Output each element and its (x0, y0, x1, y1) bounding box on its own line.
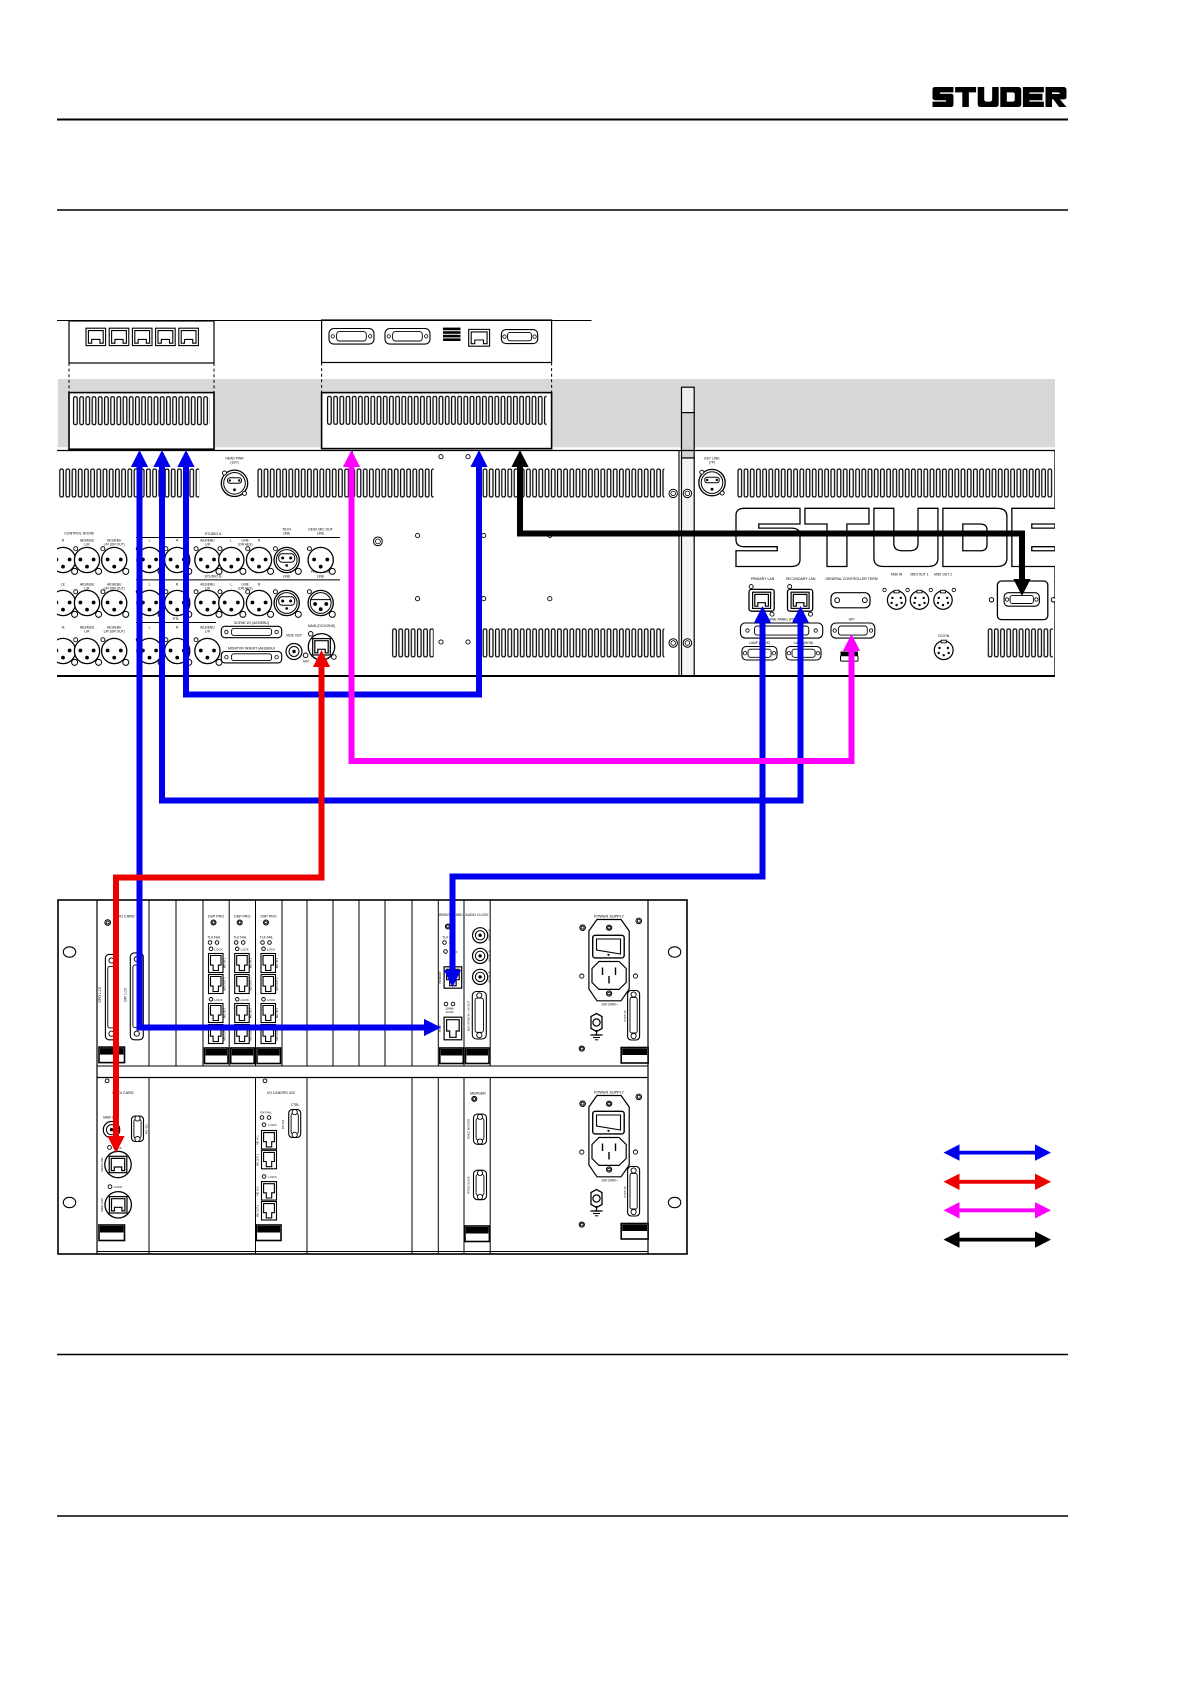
XLR connector (195, 638, 220, 663)
svg-text:GPO 1-15: GPO 1-15 (98, 987, 102, 1002)
svg-text:100-240V~: 100-240V~ (601, 1003, 618, 1007)
svg-text:MD OUT 1: MD OUT 1 (275, 977, 279, 991)
svg-text:I/O LINE/RS 422: I/O LINE/RS 422 (267, 1091, 295, 1095)
XLR connector (219, 547, 244, 572)
svg-text:PTL: PTL (173, 617, 180, 621)
XLR connector (74, 638, 99, 663)
svg-text:VIDEO IN: VIDEO IN (487, 929, 491, 941)
svg-text:LOCK: LOCK (267, 998, 275, 1002)
MADI BNC (103, 1122, 119, 1138)
MADI CARD (105, 1079, 109, 1083)
svg-text:MAIN (DO KONS): MAIN (DO KONS) (308, 624, 335, 628)
XLR connector (246, 547, 271, 572)
MD IN/OUT RJ45 jacks (235, 954, 250, 973)
svg-text:RS422 MASTER: RS422 MASTER (467, 1119, 471, 1139)
XLR connector (195, 547, 220, 572)
legend arrow blue (957, 1151, 1038, 1155)
svg-text:RS 422: RS 422 (281, 1119, 285, 1129)
svg-text:LE: LE (61, 583, 66, 587)
XLR TB IN line B (274, 590, 299, 615)
svg-text:MD IN 1: MD IN 1 (275, 957, 279, 968)
XLR connector (50, 547, 75, 572)
MD IN/OUT RJ45 jacks (261, 954, 276, 973)
svg-text:R: R (176, 583, 179, 587)
XLR connector (165, 590, 190, 615)
GENERAL CONTROLLER TERM DSUB (831, 593, 870, 608)
WCLK OUT BNC (473, 969, 488, 984)
svg-text:STUDIO B: STUDIO B (205, 575, 223, 579)
XLR PRCO TB IN (308, 590, 333, 615)
RJ45 jack (179, 328, 199, 345)
svg-text:L/R: L/R (84, 630, 90, 634)
legend arrow red (957, 1180, 1038, 1184)
footer rule 1 (57, 1354, 1068, 1356)
cable magenta M1: breakout B DB15 to GPI (352, 458, 852, 761)
svg-text:MD OUT 1: MD OUT 1 (256, 1153, 260, 1166)
svg-text:R: R (258, 583, 261, 587)
section header STUDIO A (136, 537, 340, 539)
breakout panel A (5x RJ45) (69, 321, 214, 363)
RJ45 jack (86, 328, 106, 345)
vent box B (322, 393, 552, 449)
svg-text:10 Mb: 10 Mb (446, 1010, 454, 1014)
IEC inlet (592, 962, 626, 990)
dashed drop lines panel A (68, 363, 70, 392)
svg-text:R: R (62, 539, 65, 543)
svg-text:RS422 SLAVE: RS422 SLAVE (467, 1176, 471, 1194)
rack frame (58, 900, 687, 1254)
svg-text:SCENE I/O (AES/EBU): SCENE I/O (AES/EBU) (234, 621, 269, 625)
legend arrow magenta (957, 1208, 1038, 1212)
svg-text:LOCK: LOCK (267, 947, 275, 951)
VIDEO IN BNC (473, 928, 488, 943)
header rule 1 (57, 119, 1068, 121)
RJ45 jack (469, 329, 490, 346)
dashed drop lines panel B (321, 363, 323, 393)
IEC inlet (592, 1138, 626, 1166)
svg-text:MIDI IN: MIDI IN (891, 572, 903, 576)
cable blue B1: breakout A port3 to bridge card SYNC (140, 458, 433, 1028)
svg-text:GENERAL CONTROLLER TERM: GENERAL CONTROLLER TERM (825, 577, 877, 581)
svg-text:MD IN 1: MD IN 1 (223, 957, 227, 968)
svg-text:L: L (149, 583, 151, 587)
console bottom vents (392, 628, 434, 657)
svg-text:(OR AES): (OR AES) (238, 543, 252, 547)
XLR connector (165, 547, 190, 572)
svg-text:GPI 1-15: GPI 1-15 (123, 988, 127, 1002)
svg-text:STATUS: STATUS (623, 1186, 627, 1197)
svg-text:CTRL: CTRL (291, 1103, 300, 1107)
svg-text:DSP PRO: DSP PRO (260, 915, 276, 919)
MD IN/OUT RJ45 jacks (209, 954, 224, 973)
svg-text:CONTROL ROOM: CONTROL ROOM (64, 532, 94, 536)
svg-text:MIDI OUT 2: MIDI OUT 2 (934, 572, 952, 576)
svg-text:LINE: LINE (317, 574, 325, 578)
svg-text:STUDIO A: STUDIO A (205, 532, 222, 536)
svg-text:MD IN 2: MD IN 2 (275, 1007, 279, 1018)
svg-text:RX FAIL: RX FAIL (260, 1111, 272, 1115)
STUDER embossed logo (console) (736, 508, 1145, 566)
cable black K1: breakout B DB9 to remote DB9 (520, 458, 1022, 588)
svg-text:(OR AES): (OR AES) (238, 587, 252, 591)
svg-text:PRIMARY LAN: PRIMARY LAN (751, 577, 775, 581)
I/O LINE/RS422 card (263, 1079, 267, 1083)
svg-text:MD IN 1: MD IN 1 (256, 1135, 260, 1145)
ground stud (591, 1190, 602, 1208)
XLR connector (50, 590, 75, 615)
svg-text:LOCK: LOCK (241, 998, 249, 1002)
svg-text:L/R (OR OUT): L/R (OR OUT) (104, 543, 125, 547)
MIDI OUT 1 DIN (910, 591, 928, 609)
rocker switch (593, 1111, 625, 1134)
PRIMARY RJ45 (bridge) (444, 967, 462, 988)
cable blue B3: breakout A port5 to breakout B RJ45 (186, 458, 479, 695)
STUDER logo (header) (933, 87, 1067, 107)
svg-text:LOCK: LOCK (241, 947, 249, 951)
XLR connector (50, 638, 75, 663)
DB15 connector (385, 329, 430, 345)
svg-text:LOCK: LOCK (268, 1175, 276, 1179)
svg-text:MD IN 2: MD IN 2 (249, 1007, 253, 1018)
cable red R1: console MAIN to MADI LINK (116, 658, 322, 1145)
svg-text:MD OUT 1: MD OUT 1 (223, 977, 227, 991)
svg-text:MD IN 2: MD IN 2 (256, 1186, 260, 1196)
svg-text:MD OUT 2: MD OUT 2 (256, 1204, 260, 1217)
line RJ45 jacks (262, 1131, 277, 1150)
XLR connector (246, 590, 271, 615)
XLR TB IN line (274, 547, 299, 572)
cable blue B4: PRIMARY LAN to bridge card PRIMARY (453, 613, 763, 979)
svg-text:MIDI OUT 1: MIDI OUT 1 (910, 572, 928, 576)
DB9 connector (501, 330, 537, 344)
svg-text:TLK FAIL: TLK FAIL (260, 936, 274, 940)
console top vents left (59, 469, 199, 498)
svg-text:WCLK IN: WCLK IN (487, 971, 491, 983)
rack slot dividers row 1 (148, 900, 150, 1066)
svg-text:SECONDARY LAN: SECONDARY LAN (786, 577, 816, 581)
XLR connector (74, 547, 99, 572)
svg-text:MADI LINK: MADI LINK (100, 1198, 104, 1212)
MIDI OUT 2 DIN (934, 591, 952, 609)
svg-text:MIX: MIX (303, 660, 310, 664)
console outline (57, 450, 1055, 452)
svg-text:AUDIO CLOCK: AUDIO CLOCK (465, 913, 489, 917)
svg-text:TLK FAIL: TLK FAIL (234, 936, 248, 940)
XLR connector (165, 638, 190, 663)
svg-text:MADI LINK: MADI LINK (100, 1157, 104, 1171)
svg-text:L/R: L/R (205, 630, 211, 634)
USB port stack (443, 328, 461, 331)
grey console profile band (58, 379, 1055, 447)
PRIMARY LAN RJ45 (749, 589, 774, 611)
svg-text:L/R: L/R (84, 543, 90, 547)
svg-text:LOCK: LOCK (268, 1123, 276, 1127)
svg-text:MERGER: MERGER (470, 1092, 486, 1096)
rocker switch (593, 935, 625, 958)
svg-text:VIDE OUT: VIDE OUT (286, 634, 302, 638)
cable blue B2: breakout A port4 to SECONDARY LAN (162, 458, 801, 801)
RJ45 jack (132, 328, 152, 345)
GPIO barcode label (99, 1047, 125, 1063)
svg-text:M: M (62, 626, 65, 630)
XLR connector (102, 590, 127, 615)
MIDI IN DIN (887, 591, 905, 609)
svg-text:WCLK IN: WCLK IN (487, 950, 491, 962)
RJ45 jack (109, 328, 129, 345)
MADI SYNC RJ45 (bridge) (444, 1017, 462, 1040)
svg-text:L/R: L/R (205, 543, 211, 547)
svg-text:R: R (258, 539, 261, 543)
svg-text:MONITOR INSERT (AES/EBU): MONITOR INSERT (AES/EBU) (228, 646, 275, 650)
hinge strip (682, 387, 695, 412)
XLR connector (219, 590, 244, 615)
footer rule 2 (57, 1515, 1068, 1517)
svg-text:L: L (149, 539, 151, 543)
XLR connector (102, 638, 127, 663)
svg-text:LINE: LINE (283, 532, 291, 536)
svg-text:R: R (176, 539, 179, 543)
svg-text:(7P): (7P) (709, 460, 715, 464)
svg-text:MD IN 2: MD IN 2 (223, 1007, 227, 1018)
vent box A (69, 393, 214, 450)
legend arrow black (957, 1238, 1038, 1242)
svg-text:TLK FAIL: TLK FAIL (207, 936, 221, 940)
breakout panel B (2x DB15, USB stack, RJ45, DB9) (322, 320, 552, 363)
svg-text:LINE: LINE (317, 532, 325, 536)
svg-text:LOCK: LOCK (214, 947, 222, 951)
svg-text:R: R (176, 626, 179, 630)
svg-text:DSP PRO: DSP PRO (208, 915, 224, 919)
XLR DESK MIC OUT (308, 547, 333, 572)
svg-text:DC/ON: DC/ON (938, 634, 949, 638)
svg-text:GPI: GPI (849, 617, 855, 621)
ground stud (591, 1014, 602, 1032)
svg-text:AES SYNC IN + 2x OUT: AES SYNC IN + 2x OUT (466, 1000, 470, 1031)
svg-text:L: L (230, 583, 232, 587)
XLR connector (195, 590, 220, 615)
XLR connector (137, 638, 162, 663)
console top vents right section (737, 469, 1053, 498)
header rule 2 (57, 209, 1068, 211)
svg-text:LINE: LINE (283, 574, 291, 578)
svg-text:L/R (OR OUT): L/R (OR OUT) (104, 630, 125, 634)
top connecting line (57, 320, 592, 322)
remote DB9 in plate (997, 581, 1047, 620)
rack slot dividers row 2 (148, 1078, 150, 1255)
console screws (439, 455, 443, 459)
svg-text:(12V): (12V) (230, 460, 238, 464)
svg-text:LOCK: LOCK (114, 1185, 122, 1189)
section header STUDIO B (136, 579, 340, 581)
svg-text:L: L (149, 626, 151, 630)
svg-text:100-240V~: 100-240V~ (601, 1179, 618, 1183)
section header PTL (136, 622, 216, 624)
svg-text:L: L (230, 539, 232, 543)
svg-text:DSP PRO: DSP PRO (234, 915, 250, 919)
XLR connector (74, 590, 99, 615)
SECONDARY LAN RJ45 (788, 589, 813, 611)
XLR connector (137, 590, 162, 615)
RJ45 jack (156, 328, 176, 345)
svg-text:LOCK: LOCK (214, 998, 222, 1002)
WCLK IN BNC (473, 948, 488, 963)
XLR connector (102, 547, 127, 572)
svg-text:MD IN 1: MD IN 1 (249, 957, 253, 968)
svg-text:RS 422: RS 422 (145, 1124, 149, 1134)
XLR connector (137, 547, 162, 572)
svg-text:PRIMARY: PRIMARY (438, 971, 442, 984)
DB15 connector (329, 329, 374, 345)
svg-text:STATUS: STATUS (623, 1010, 627, 1021)
rack ears (63, 947, 75, 957)
svg-text:MD OUT 1: MD OUT 1 (249, 977, 253, 991)
